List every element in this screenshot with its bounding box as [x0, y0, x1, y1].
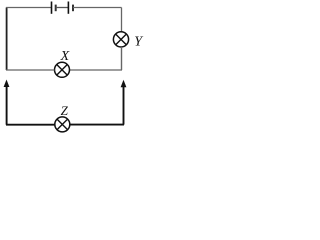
wire: top from left corner to battery — [6, 7, 52, 9]
wire: right vertical down to lamp Y — [121, 8, 123, 33]
wire: middle horizontal left segment — [6, 69, 55, 71]
wire: left vertical of main loop — [6, 8, 8, 71]
wire: bottom horizontal left segment — [6, 124, 55, 126]
battery B1 cell1 short plate — [55, 5, 57, 12]
lamp Y — [113, 32, 128, 47]
wire: top from battery to right corner — [73, 7, 122, 9]
battery B1 cell2 short plate — [72, 5, 74, 12]
wire: between battery cells — [56, 7, 69, 9]
wire: right vertical from lamp Y down to middle wire — [121, 47, 123, 70]
wire: bottom horizontal right segment — [70, 124, 124, 126]
lamp Z — [55, 117, 70, 132]
battery B1 cell2 long plate — [67, 2, 69, 14]
arrowhead right (up) — [121, 80, 127, 87]
wire: left arrow vertical — [6, 86, 8, 125]
svg-text:Y: Y — [134, 35, 144, 50]
svg-text:X: X — [60, 49, 70, 64]
wire: right arrow vertical — [123, 86, 125, 125]
lamp X — [55, 62, 70, 77]
battery B1 cell1 long plate — [51, 2, 53, 14]
arrowhead left (up) — [4, 80, 10, 88]
wire: middle horizontal right segment — [70, 69, 123, 71]
svg-text:Z: Z — [61, 103, 69, 118]
